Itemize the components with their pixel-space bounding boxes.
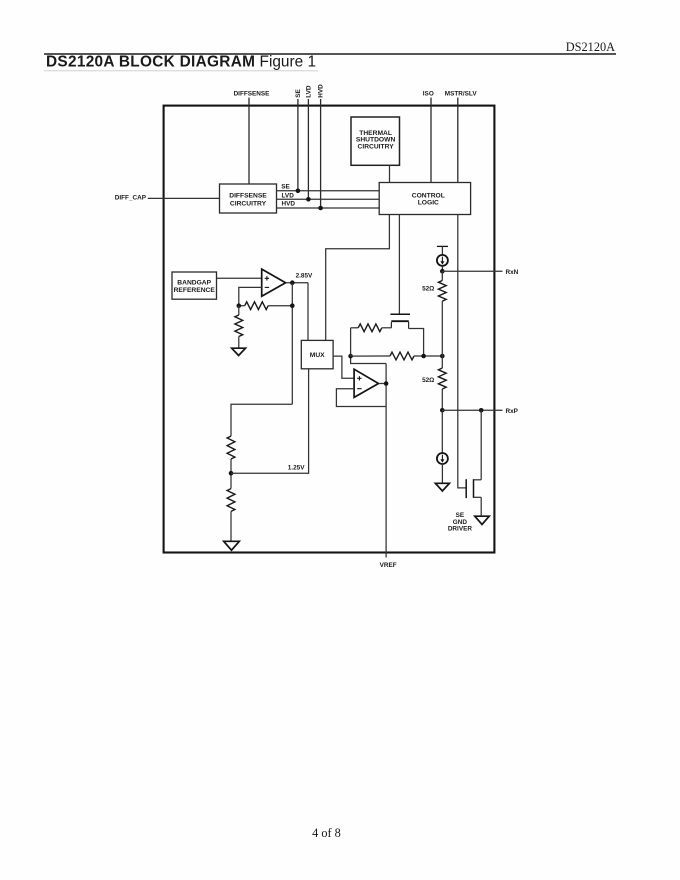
resistor R8 52ohm lower [441, 356, 443, 368]
junction U3 output [384, 381, 389, 386]
resistor R5 (top branch) [351, 327, 359, 329]
wire Q1 drain to node B [409, 329, 424, 356]
block CONTROL LOGIC [379, 183, 470, 215]
wire 2.85V node to divider [231, 404, 292, 436]
svg-text:4 of 8: 4 of 8 [312, 826, 341, 840]
block DIFFSENSE CIRCUITRY [220, 184, 277, 213]
op-amp U3 (VREF buffer) [354, 369, 378, 397]
faint underline under title [44, 70, 318, 72]
wire RxN [442, 270, 502, 272]
svg-text:MUX: MUX [310, 352, 325, 359]
wire LVD to control logic [277, 198, 380, 200]
svg-text:1.25V: 1.25V [288, 465, 305, 472]
svg-text:MSTR/SLV: MSTR/SLV [445, 91, 478, 98]
svg-text:DRIVER: DRIVER [448, 526, 473, 533]
wire HVD to control logic [277, 207, 380, 209]
current source I1 [437, 255, 448, 266]
svg-text:52Ω: 52Ω [422, 377, 434, 384]
svg-text:SE: SE [281, 183, 290, 190]
svg-text:LVD: LVD [305, 85, 312, 98]
outer diagram border [164, 106, 495, 553]
wire control logic to MUX select [326, 215, 390, 341]
junction LVD [306, 197, 311, 202]
resistor R3 (divider top) [227, 436, 235, 459]
svg-text:2.85V: 2.85V [296, 273, 313, 280]
wire node column up [350, 328, 352, 356]
svg-text:LOGIC: LOGIC [418, 199, 439, 206]
wire Q2 drain to RxP [480, 410, 482, 480]
junction HVD [318, 206, 323, 211]
block THERMAL SHUTDOWN CIRCUITRY [351, 117, 400, 165]
wire SE to control logic [277, 190, 380, 192]
wire VREF vertical [385, 364, 387, 558]
svg-text:HVD: HVD [282, 201, 296, 208]
junction RxN [440, 269, 445, 274]
wire control logic to pass transistor gate [398, 215, 400, 314]
svg-text:DIFFSENSE: DIFFSENSE [234, 91, 271, 98]
svg-text:CIRCUITRY: CIRCUITRY [358, 143, 395, 150]
block BANDGAP REFERENCE [172, 272, 217, 299]
wire HVD vertical [320, 99, 322, 208]
svg-text:DS2120A: DS2120A [566, 40, 615, 54]
block MUX [301, 340, 333, 368]
junction 1.25V tap [229, 471, 234, 476]
svg-text:DIFFSENSE: DIFFSENSE [229, 193, 267, 200]
junction SE [296, 189, 301, 194]
wire U2 output [286, 282, 308, 284]
resistor R4 (divider bottom) [227, 489, 235, 512]
wire ISO vertical [430, 98, 432, 183]
svg-text:HVD: HVD [318, 84, 325, 98]
ground under divider [224, 541, 240, 550]
svg-text:LVD: LVD [282, 192, 295, 199]
wire MSTR/SLV vertical [457, 98, 459, 183]
wire 2.85V node down [291, 283, 293, 405]
resistor R6 (bottom branch) [351, 355, 390, 357]
supply T-bar [437, 246, 448, 255]
junction termination node [348, 354, 353, 359]
svg-text:ISO: ISO [423, 91, 434, 98]
svg-text:52Ω: 52Ω [422, 286, 434, 293]
junction RxP drain [479, 408, 484, 413]
ground under R2 [232, 348, 246, 355]
wire DIFF_CAP into diffsense circuitry [148, 197, 220, 199]
junction node B2 [440, 354, 445, 359]
current source I2 [441, 410, 443, 453]
wire thermal shutdown to control logic [389, 165, 391, 182]
header rule [44, 53, 616, 55]
wire U2 inverting input feedback [239, 287, 262, 305]
ground under I2 [435, 483, 449, 491]
wire bandgap to op-amp U2 + input [217, 277, 262, 279]
svg-text:VREF: VREF [380, 562, 397, 569]
wire Q2 source to ground [480, 497, 482, 516]
wire node to U3 output [351, 356, 387, 363]
svg-text:CIRCUITRY: CIRCUITRY [230, 201, 267, 208]
svg-text:BANDGAP: BANDGAP [177, 280, 211, 287]
svg-text:REFERENCE: REFERENCE [174, 287, 216, 294]
svg-text:DS2120A BLOCK DIAGRAM Figure 1: DS2120A BLOCK DIAGRAM Figure 1 [46, 53, 316, 70]
svg-text:RxP: RxP [506, 408, 519, 415]
resistor R2 (to ground) [238, 306, 240, 315]
wire U3 feedback loop [336, 389, 386, 407]
wire LVD vertical [307, 99, 309, 199]
resistor R7 52ohm upper [441, 271, 443, 280]
wire MUX output to op-amp U3 + input [333, 356, 354, 378]
wire 1.25V tap to MUX input [231, 369, 309, 473]
label SE GND DRIVER [448, 512, 473, 533]
junction RxP [440, 408, 445, 413]
wire control logic to SE GND driver gate [458, 215, 466, 488]
resistor R1 (U2 feedback) [239, 305, 245, 307]
svg-text:RxN: RxN [506, 269, 519, 276]
wire DIFFSENSE stub down to diffsense circuitry [248, 98, 250, 184]
wire RxP [442, 409, 502, 411]
svg-text:SE: SE [295, 89, 302, 98]
op-amp U2 (2.85V buffer) [262, 269, 286, 296]
wire U3 output [379, 383, 387, 385]
svg-text:DIFF_CAP: DIFF_CAP [115, 194, 147, 201]
ground under Q2 [475, 516, 489, 524]
wire 2.85V to MUX input [307, 283, 309, 341]
junction U2 output [290, 280, 295, 285]
wire SE vertical [297, 99, 299, 191]
transistor Q1 (pass FET) [390, 314, 410, 328]
junction feedback left [237, 303, 242, 308]
transistor Q2 (SE GND driver) [466, 479, 481, 498]
junction node B [421, 354, 426, 359]
junction feedback right [290, 303, 295, 308]
